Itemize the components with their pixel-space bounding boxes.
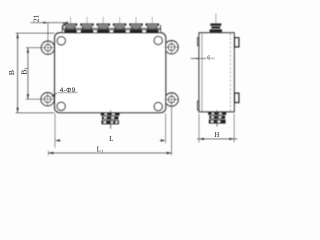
ear top-right <box>165 41 178 54</box>
side ear tab top <box>235 38 239 47</box>
terminal 2 <box>80 17 93 33</box>
terminal 6 <box>146 17 159 33</box>
svg-text:21: 21 <box>32 14 41 22</box>
svg-text:L: L <box>109 135 113 143</box>
hole top-left <box>45 44 52 51</box>
box body outline <box>55 33 166 113</box>
dim L line <box>55 114 166 148</box>
cable gland front <box>101 110 120 129</box>
svg-text:B1: B1 <box>19 67 28 75</box>
svg-text:H: H <box>214 132 219 139</box>
terminal 4 <box>113 17 126 33</box>
dim H line <box>197 114 237 143</box>
dim B1 line <box>27 48 29 99</box>
terminal 3 <box>97 17 110 33</box>
side left lug bottom <box>197 101 199 110</box>
side top terminal <box>210 14 222 33</box>
side view body <box>199 33 234 112</box>
hole bottom-right <box>168 96 175 103</box>
dim L1 line <box>48 151 171 156</box>
side hidden line <box>229 34 231 112</box>
ear bottom-right <box>165 93 178 106</box>
svg-text:L1: L1 <box>97 146 104 154</box>
side cover line <box>201 33 203 112</box>
svg-text:4-Φ9: 4-Φ9 <box>60 87 76 94</box>
label 4-phi9 leader <box>51 93 78 98</box>
cover screw top-left <box>57 37 65 45</box>
hole bottom-left <box>44 96 51 103</box>
ear bottom-left <box>41 93 54 106</box>
dim B line <box>16 33 55 113</box>
side ear tab bottom <box>235 93 239 102</box>
terminal strip base <box>62 30 160 33</box>
cover screw bottom-left <box>57 102 65 110</box>
side cable gland <box>208 110 226 126</box>
cover screw top-right <box>154 36 162 44</box>
ear top-left <box>41 41 54 54</box>
dim 6 line <box>191 58 215 60</box>
side left lug top <box>197 38 199 46</box>
dim 21 line <box>31 22 69 28</box>
svg-text:6: 6 <box>207 54 210 61</box>
hole top-right <box>168 44 175 51</box>
terminal 1 <box>64 17 77 33</box>
svg-text:B: B <box>7 70 16 75</box>
cover screw bottom-right <box>154 102 162 110</box>
terminal 5 <box>129 17 142 33</box>
